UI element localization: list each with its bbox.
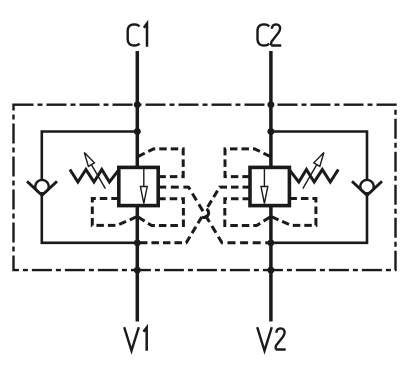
junction node V2/boundary — [267, 267, 274, 274]
port label C1 — [128, 24, 147, 47]
left spring adjustment arrow — [91, 165, 105, 189]
inner solid housing line, bottom-right segment — [271, 194, 367, 243]
counterbalance valve body (left) — [119, 167, 158, 205]
pilot line: right valve lower-right loop (dashed) — [271, 199, 316, 226]
junction node C1/boundary — [134, 101, 141, 108]
pilot line: right valve upper loop (dashed) — [225, 149, 270, 177]
check valve left: ball — [35, 180, 48, 193]
inner solid housing line, top-left segment — [42, 132, 138, 181]
left valve internal poppet arrow — [143, 169, 145, 186]
junction node C2/boundary — [267, 101, 274, 108]
pilot line: left valve upper loop (dashed) — [138, 149, 183, 177]
junction node C2/housing top — [267, 128, 274, 135]
right valve internal poppet arrow — [263, 169, 265, 186]
junction node V1/housing bottom — [134, 239, 141, 246]
wire: C2-V2 main line — [269, 51, 273, 322]
pilot line: left valve lower-left loop (dashed) — [92, 199, 137, 226]
right spring adjustment arrow — [303, 165, 317, 189]
pilot line: right valve lower-left loop (dashed) — [225, 199, 271, 226]
wire hop over crossing — [202, 209, 209, 217]
outer enclosure boundary (dash-dot) — [14, 105, 396, 270]
junction node V1/boundary — [134, 267, 141, 274]
junction node C1/housing top — [134, 128, 141, 135]
inner solid housing line, bottom-left segment — [42, 194, 138, 243]
left valve spring — [70, 170, 119, 183]
check valve right: ball — [360, 180, 373, 193]
junction node V2/housing bottom — [267, 239, 274, 246]
inner solid housing line, top-right segment — [271, 132, 367, 181]
check valve right: seat — [352, 181, 382, 195]
port label V2 — [257, 327, 285, 351]
pilot line: left valve cross pilot to V2 side (dashed) — [158, 187, 269, 243]
port label C2 — [258, 24, 282, 45]
counterbalance valve body (right) — [250, 167, 289, 205]
port label V1 — [124, 327, 147, 351]
pilot line: right valve cross pilot to V1 side (dashed, with hop) — [206, 187, 250, 209]
wire: C1-V1 main line — [136, 51, 140, 322]
check valve left: seat — [27, 181, 57, 195]
pilot line: left valve lower-right loop (dashed) — [137, 199, 183, 226]
right valve spring — [289, 170, 338, 183]
